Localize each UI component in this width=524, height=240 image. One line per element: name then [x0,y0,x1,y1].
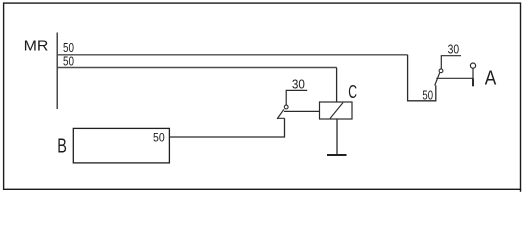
svg-text:50: 50 [422,88,433,102]
relay C coil [320,102,353,119]
svg-text:A: A [485,67,497,89]
svg-text:B: B [57,135,67,157]
wire bus1 elbow to switch S2 terminal 50 [408,55,436,101]
wire bus2 down to relay C coil [336,68,338,103]
switch S2 fixed contact [439,69,443,73]
bus bar MR (vertical) [56,33,58,110]
wire relay C to ground [336,119,338,155]
switch S1 terminal 30 lead [286,90,307,105]
wire 50 bus 2 (horizontal) [57,67,336,69]
switch S1 blade [277,109,284,119]
svg-text:50: 50 [63,41,74,55]
component B box [73,128,169,163]
wire jog blade-foot S1 [277,117,284,119]
terminal A [470,63,475,68]
wire switch S1 to relay C coil [284,110,320,112]
wire switch S2 to terminal A [436,77,473,79]
svg-text:50: 50 [153,131,165,145]
svg-text:MR: MR [24,37,49,54]
svg-text:30: 30 [448,43,460,57]
switch S2 blade [435,73,440,86]
switch S2 terminal 30 lead [441,56,461,69]
switch S1 fixed contact [284,105,288,109]
svg-text:30: 30 [292,77,305,91]
wire 50 bus 1 (horizontal) [57,54,407,56]
wire B to switch S1 [169,118,284,137]
ground [327,154,347,156]
svg-text:C: C [348,82,357,102]
svg-text:50: 50 [63,55,74,69]
